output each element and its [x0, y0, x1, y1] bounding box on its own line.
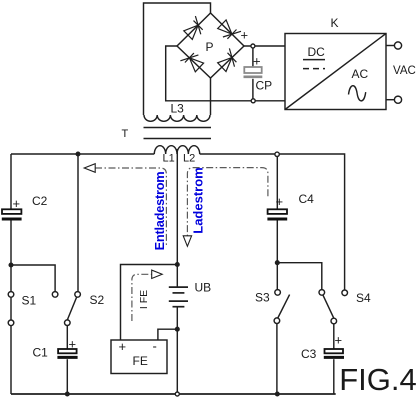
svg-text:FIG.4: FIG.4 [339, 362, 417, 397]
svg-text:+: + [69, 337, 77, 352]
svg-text:P: P [206, 40, 214, 54]
svg-text:+: + [241, 28, 249, 43]
svg-text:+: + [276, 194, 284, 209]
svg-text:FE: FE [133, 354, 148, 368]
svg-text:+: + [335, 333, 343, 348]
svg-text:AC: AC [352, 67, 369, 81]
svg-text:L2: L2 [183, 153, 195, 165]
svg-text:C2: C2 [32, 194, 48, 208]
svg-text:C4: C4 [299, 192, 315, 206]
svg-text:Ladestrom: Ladestrom [191, 167, 206, 233]
svg-text:I FE: I FE [138, 290, 150, 309]
svg-text:UB: UB [195, 281, 212, 295]
svg-text:S3: S3 [255, 291, 270, 305]
svg-text:C3: C3 [301, 347, 317, 361]
svg-text:L3: L3 [171, 102, 185, 116]
svg-text:S2: S2 [90, 293, 105, 307]
svg-text:+: + [119, 339, 127, 354]
svg-text:S4: S4 [356, 291, 371, 305]
svg-text:T: T [122, 128, 129, 140]
svg-text:VAC: VAC [393, 65, 416, 77]
svg-text:Entladestrom: Entladestrom [152, 172, 167, 251]
svg-text:L1: L1 [163, 153, 175, 165]
svg-text:CP: CP [256, 79, 273, 93]
svg-text:C1: C1 [33, 346, 49, 360]
svg-text:S1: S1 [22, 294, 37, 308]
svg-text:DC: DC [308, 45, 326, 59]
svg-text:+: + [13, 196, 21, 211]
svg-text:-: - [153, 339, 157, 354]
svg-text:K: K [331, 16, 339, 30]
svg-text:+: + [253, 54, 261, 69]
